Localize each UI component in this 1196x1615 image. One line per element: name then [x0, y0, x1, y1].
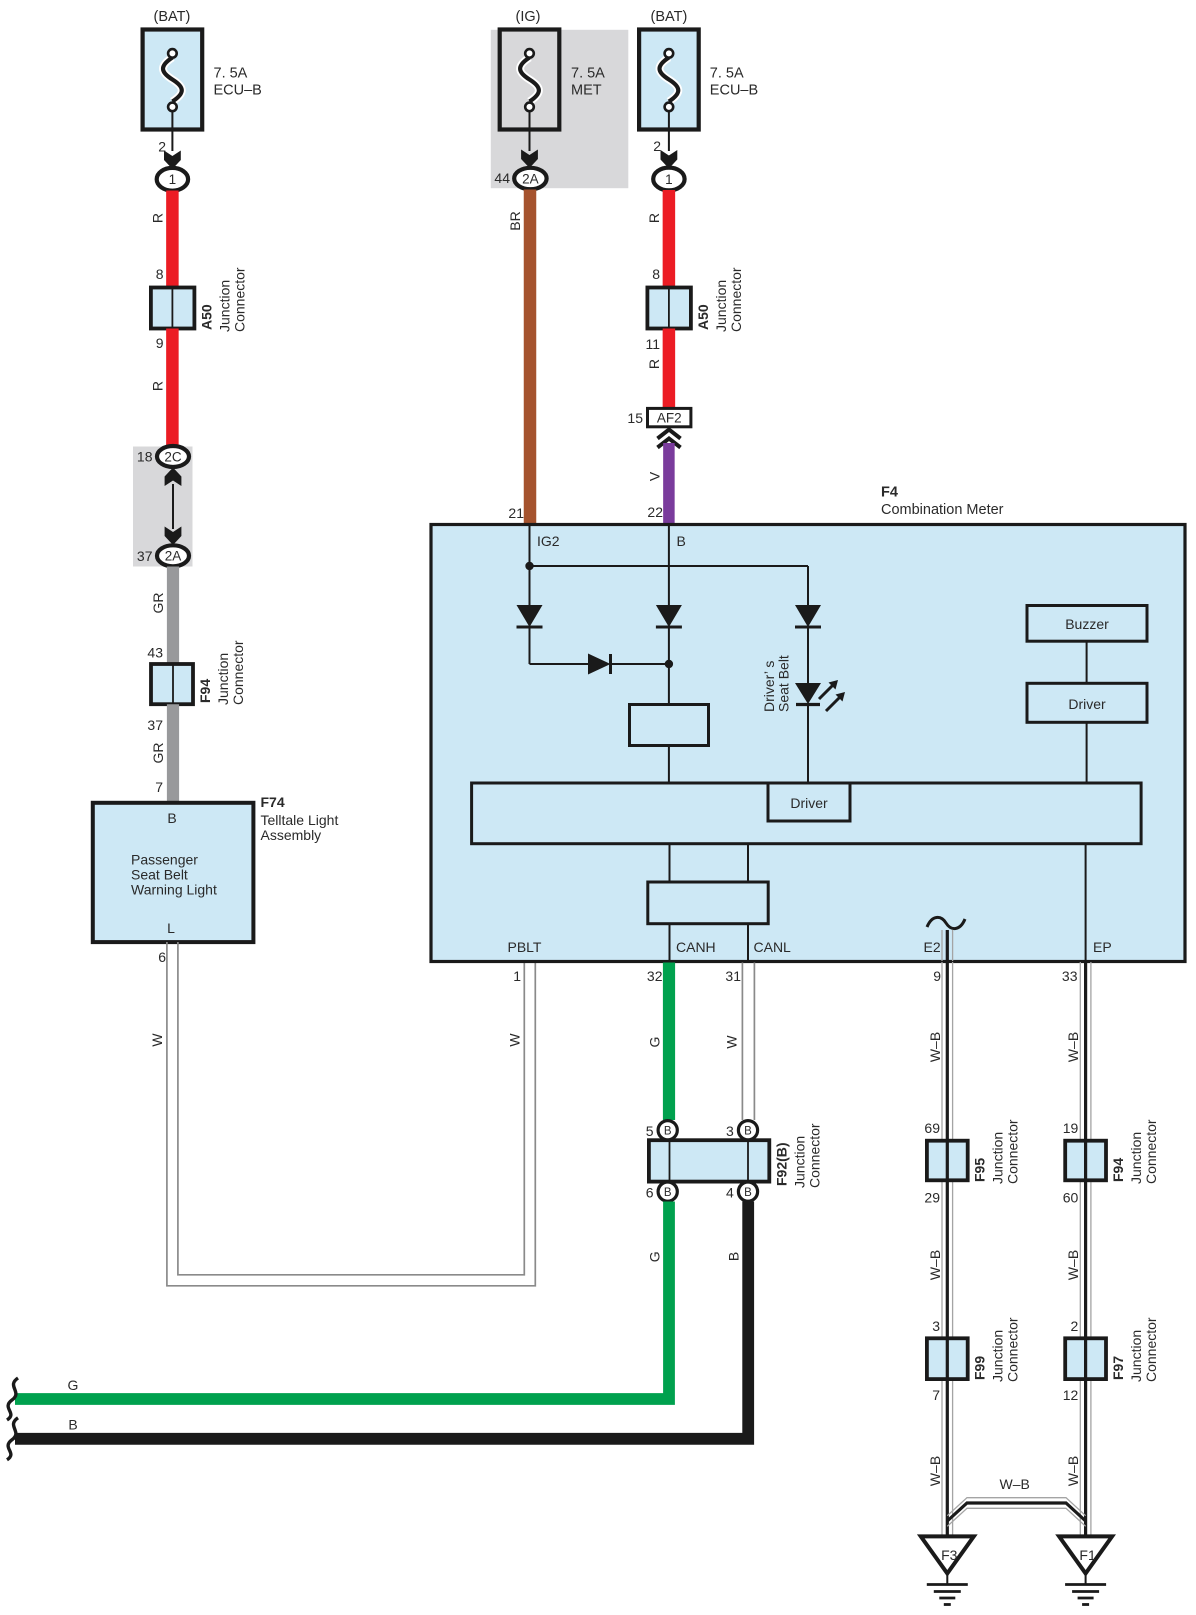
- svg-text:B: B: [677, 533, 686, 549]
- svg-text:B: B: [725, 1252, 741, 1261]
- svg-text:7. 5A: 7. 5A: [214, 66, 248, 82]
- svg-text:37: 37: [147, 717, 163, 733]
- svg-text:B: B: [744, 1126, 752, 1138]
- inter-connector wire: [172, 484, 174, 529]
- svg-text:F4: F4: [881, 485, 898, 501]
- svg-text:Junction: Junction: [990, 1330, 1006, 1382]
- svg-text:W: W: [149, 1033, 165, 1047]
- inter-connector arrow down: [165, 527, 182, 546]
- internal EP wire: [1085, 844, 1087, 960]
- telltale light assembly F74: [93, 803, 254, 942]
- diode D2 (middle, on B): [656, 605, 682, 627]
- svg-text:R: R: [150, 213, 166, 223]
- svg-text:V: V: [647, 471, 663, 481]
- svg-text:31: 31: [725, 968, 741, 984]
- svg-text:L: L: [167, 920, 175, 936]
- svg-text:F1: F1: [1079, 1547, 1096, 1563]
- svg-text:12: 12: [1063, 1387, 1079, 1403]
- svg-text:3: 3: [932, 1318, 940, 1334]
- wire R red (fuse to junction A50): [166, 191, 179, 288]
- svg-text:W–B: W–B: [1000, 1476, 1030, 1492]
- svg-text:F94: F94: [197, 679, 213, 703]
- ground F1: [1059, 1536, 1112, 1573]
- ground F3: [921, 1536, 974, 1573]
- svg-text:F97: F97: [1110, 1356, 1126, 1380]
- svg-text:Seat Belt: Seat Belt: [131, 867, 188, 883]
- LED seat belt indicator: [795, 683, 821, 704]
- wire buzzer to driver: [1086, 641, 1088, 683]
- svg-text:F95: F95: [972, 1158, 988, 1182]
- svg-text:22: 22: [647, 504, 663, 520]
- svg-text:69: 69: [924, 1120, 940, 1136]
- svg-text:W–B: W–B: [1065, 1456, 1081, 1486]
- gray harness box around IG fuse: [491, 30, 629, 188]
- svg-text:G: G: [647, 1251, 663, 1262]
- svg-text:2A: 2A: [522, 171, 539, 186]
- svg-text:F92(B): F92(B): [773, 1142, 789, 1186]
- terminal circles B of F92(B): [658, 1121, 677, 1140]
- svg-text:ECU–B: ECU–B: [214, 83, 262, 99]
- E2 squiggle (internal connection): [927, 917, 965, 928]
- svg-text:Connector: Connector: [806, 1123, 822, 1188]
- svg-text:3: 3: [726, 1123, 734, 1139]
- svg-text:9: 9: [156, 335, 164, 351]
- svg-text:7: 7: [155, 779, 163, 795]
- junction connector F94 (left): [151, 664, 193, 704]
- main internal block (bus): [472, 783, 1142, 844]
- svg-text:Warning Light: Warning Light: [131, 882, 217, 898]
- node dot B: [665, 660, 673, 668]
- svg-text:2C: 2C: [164, 449, 182, 464]
- svg-text:Connector: Connector: [728, 267, 744, 332]
- svg-text:Driver: Driver: [790, 795, 828, 811]
- svg-text:19: 19: [1063, 1120, 1079, 1136]
- arrow into connector 1: [164, 151, 181, 170]
- wire R red (fuse to junction A50 right): [663, 190, 676, 288]
- svg-text:1: 1: [513, 968, 521, 984]
- junction connector A50 (left): [151, 288, 195, 329]
- svg-text:8: 8: [652, 266, 660, 282]
- internal component block (unlabeled): [630, 705, 709, 746]
- svg-text:9: 9: [933, 968, 941, 984]
- svg-text:6: 6: [158, 949, 166, 965]
- svg-text:Combination Meter: Combination Meter: [881, 502, 1004, 518]
- svg-text:4: 4: [726, 1185, 734, 1201]
- break mark black wire: [7, 1418, 18, 1460]
- junction connector F92(B): [649, 1140, 769, 1181]
- diode D3 (right branch): [795, 605, 821, 627]
- svg-text:CANH: CANH: [676, 939, 716, 955]
- svg-text:7. 5A: 7. 5A: [710, 66, 744, 82]
- wire BR brown (2A to meter pin21 IG2): [524, 190, 537, 526]
- svg-text:60: 60: [1063, 1190, 1079, 1206]
- inter-connector arrow up: [165, 468, 182, 487]
- internal wire B vertical: [668, 526, 670, 605]
- svg-text:15: 15: [627, 410, 643, 426]
- svg-text:29: 29: [924, 1190, 940, 1206]
- svg-text:7. 5A: 7. 5A: [571, 66, 605, 82]
- svg-text:BR: BR: [507, 211, 523, 230]
- svg-text:1: 1: [169, 172, 177, 187]
- wire below D1: [529, 627, 531, 664]
- svg-text:Junction: Junction: [1128, 1330, 1144, 1382]
- svg-text:43: 43: [147, 645, 163, 661]
- svg-text:Connector: Connector: [1005, 1317, 1021, 1382]
- svg-text:W–B: W–B: [927, 1032, 943, 1062]
- svg-text:EP: EP: [1093, 939, 1112, 955]
- wire V violet (to meter pin 22 B): [663, 443, 675, 525]
- driver box (in bus): [768, 783, 850, 821]
- wire W white loop (F74 pin6 to meter PBLT pin1): [167, 942, 535, 1286]
- svg-text:W–B: W–B: [927, 1250, 943, 1280]
- diode D4 (pointing right): [588, 654, 611, 675]
- svg-text:Junction: Junction: [1128, 1132, 1144, 1184]
- svg-text:Connector: Connector: [1005, 1119, 1021, 1184]
- svg-text:B: B: [68, 1417, 77, 1433]
- svg-text:5: 5: [646, 1123, 654, 1139]
- svg-text:CANL: CANL: [754, 939, 792, 955]
- svg-text:W–B: W–B: [927, 1456, 943, 1486]
- svg-text:44: 44: [494, 170, 510, 186]
- svg-text:B: B: [664, 1187, 672, 1199]
- svg-text:8: 8: [156, 266, 164, 282]
- double chevron page link: [658, 430, 681, 439]
- svg-text:F3: F3: [941, 1547, 958, 1563]
- svg-text:Junction: Junction: [990, 1132, 1006, 1184]
- svg-text:2: 2: [1071, 1318, 1079, 1334]
- svg-text:(BAT): (BAT): [154, 9, 191, 25]
- svg-text:(IG): (IG): [516, 9, 541, 25]
- svg-text:W: W: [506, 1033, 522, 1047]
- wire W-B (E2 to ground): [941, 962, 943, 1536]
- svg-text:21: 21: [508, 505, 524, 521]
- svg-text:33: 33: [1062, 968, 1078, 984]
- gray harness box around connectors 2C/2A: [133, 447, 193, 567]
- svg-text:W–B: W–B: [1065, 1250, 1081, 1280]
- svg-text:32: 32: [647, 968, 663, 984]
- svg-text:2A: 2A: [165, 549, 182, 564]
- arrow into connector 2A: [521, 150, 538, 169]
- E2 internal W-B stub: [941, 930, 943, 961]
- svg-text:Junction: Junction: [791, 1136, 807, 1188]
- wire right branch vertical: [807, 566, 809, 605]
- svg-text:37: 37: [137, 548, 153, 564]
- wire G green (CANH to F92B pin5): [663, 963, 675, 1121]
- wires CAN block to pins: [669, 924, 671, 960]
- svg-text:B: B: [744, 1187, 752, 1199]
- svg-text:F99: F99: [972, 1356, 988, 1380]
- svg-text:Passenger: Passenger: [131, 852, 198, 868]
- svg-text:Connector: Connector: [231, 267, 247, 332]
- svg-text:2: 2: [653, 138, 661, 154]
- junction connector A50 (right): [647, 288, 691, 329]
- node dot IG2: [525, 562, 533, 570]
- svg-text:B: B: [664, 1126, 672, 1138]
- wire GR gray (2A to F94): [167, 567, 179, 665]
- arrow into connector 1: [661, 150, 678, 169]
- svg-text:Seat Belt: Seat Belt: [776, 655, 792, 712]
- svg-text:G: G: [647, 1037, 663, 1048]
- internal wire from IG2: [529, 526, 531, 605]
- svg-text:Buzzer: Buzzer: [1065, 616, 1109, 632]
- wire W-B (EP to ground): [1079, 962, 1081, 1536]
- svg-text:Connector: Connector: [1143, 1119, 1159, 1184]
- svg-text:Connector: Connector: [230, 640, 246, 705]
- svg-text:Assembly: Assembly: [261, 827, 322, 843]
- wire GR gray (F94 to F74): [167, 704, 179, 803]
- svg-text:AF2: AF2: [657, 411, 682, 426]
- svg-text:IG2: IG2: [537, 533, 560, 549]
- wire R red (A50 to 2C): [166, 329, 179, 448]
- svg-text:A50: A50: [695, 304, 711, 330]
- svg-text:ECU–B: ECU–B: [710, 83, 758, 99]
- wire W white (CANL to F92B pin3): [741, 963, 743, 1121]
- svg-text:GR: GR: [150, 743, 166, 764]
- wire driver to main block: [1086, 722, 1088, 783]
- wire R red (A50 to AF2): [663, 329, 676, 410]
- svg-text:Junction: Junction: [216, 280, 232, 332]
- svg-text:PBLT: PBLT: [508, 939, 542, 955]
- wires bus to CAN block: [669, 844, 671, 882]
- connector oval 1: [157, 168, 188, 191]
- svg-text:1: 1: [665, 172, 673, 187]
- driver box (right): [1027, 683, 1147, 722]
- svg-text:Connector: Connector: [1143, 1317, 1159, 1382]
- wire G green (F92B pin6 down and left): [15, 1202, 669, 1400]
- svg-text:W: W: [724, 1035, 740, 1049]
- wire B black (F92B pin4 down and left): [15, 1202, 748, 1439]
- W-B bridge wire between grounds: [947, 1498, 1085, 1516]
- diode D1 (left, on IG2): [517, 605, 543, 627]
- svg-text:GR: GR: [150, 593, 166, 614]
- svg-text:6: 6: [646, 1185, 654, 1201]
- svg-text:A50: A50: [198, 304, 214, 330]
- break mark green wire: [7, 1378, 18, 1420]
- svg-text:18: 18: [137, 449, 153, 465]
- svg-text:W–B: W–B: [1065, 1032, 1081, 1062]
- svg-text:Driver: Driver: [1068, 696, 1106, 712]
- svg-text:7: 7: [932, 1387, 940, 1403]
- internal bus wire horizontal: [530, 565, 809, 567]
- svg-text:MET: MET: [571, 83, 602, 99]
- svg-text:G: G: [68, 1377, 79, 1393]
- svg-text:E2: E2: [924, 939, 941, 955]
- svg-text:(BAT): (BAT): [651, 9, 688, 25]
- svg-text:R: R: [646, 213, 662, 223]
- CAN transceiver block (unlabeled): [648, 882, 768, 924]
- svg-text:Telltale Light: Telltale Light: [261, 812, 339, 828]
- svg-text:R: R: [150, 381, 166, 391]
- svg-text:F94: F94: [1110, 1158, 1126, 1182]
- svg-text:F74: F74: [261, 794, 285, 810]
- connector oval 1: [653, 168, 684, 191]
- combination meter F4 box: [431, 525, 1185, 962]
- svg-text:Junction: Junction: [215, 653, 231, 705]
- svg-text:B: B: [167, 810, 176, 826]
- svg-text:11: 11: [645, 336, 660, 352]
- svg-text:Junction: Junction: [713, 280, 729, 332]
- buzzer box: [1027, 606, 1147, 642]
- svg-text:R: R: [646, 359, 662, 369]
